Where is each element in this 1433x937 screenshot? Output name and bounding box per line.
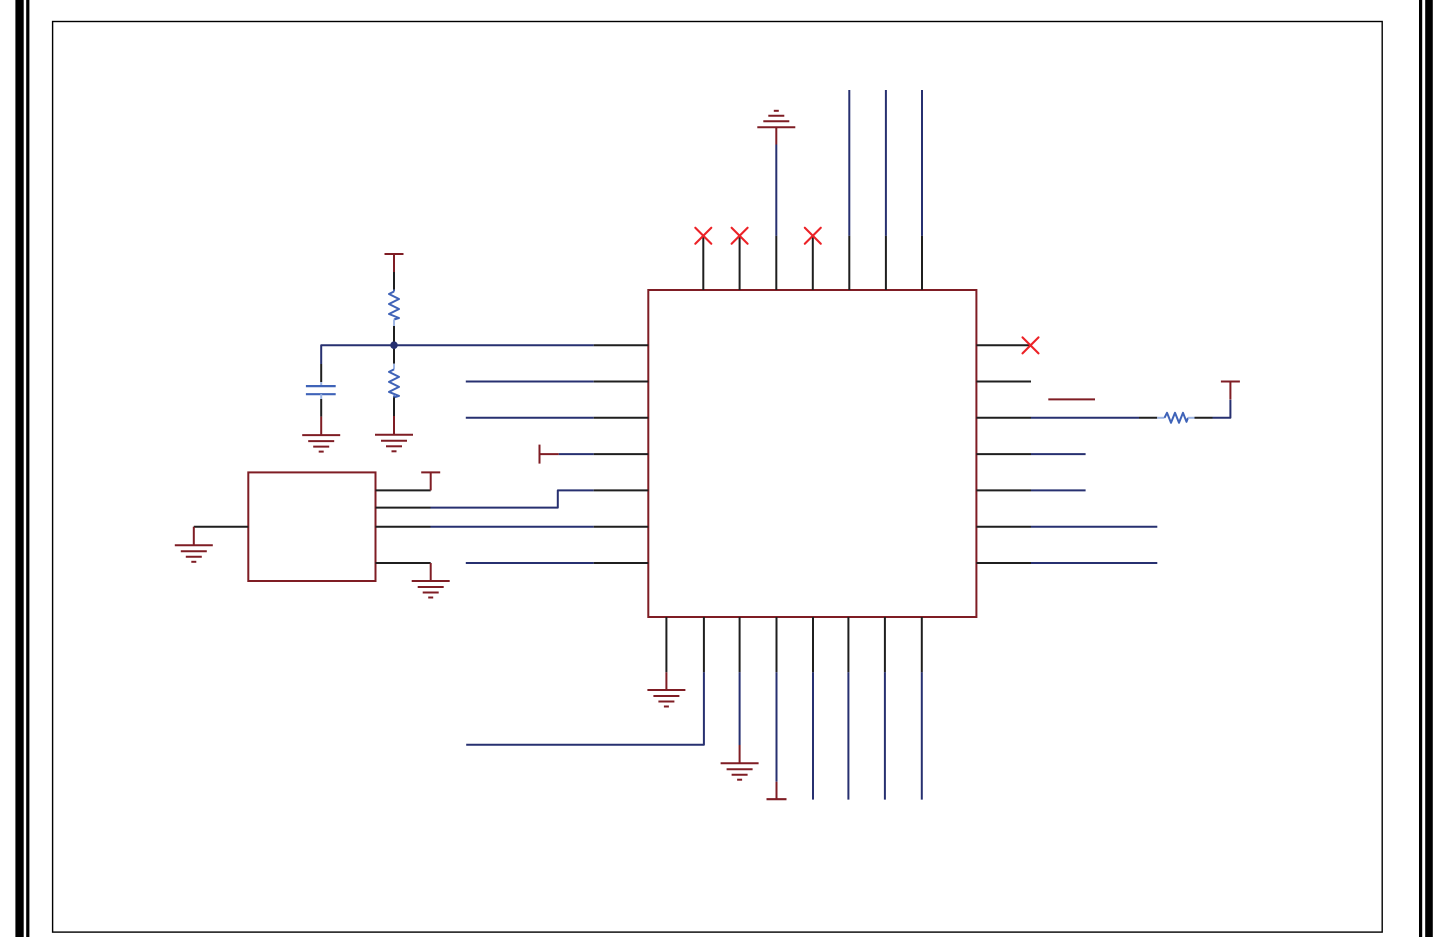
ground: [375, 416, 413, 451]
ground: [647, 672, 685, 706]
no-connect: [695, 228, 711, 244]
wire: [1213, 400, 1231, 418]
power flag PWR4: [767, 782, 787, 800]
no-connect: [1023, 337, 1039, 353]
wire: [885, 90, 887, 236]
wire: [466, 562, 594, 564]
wire: [321, 345, 594, 364]
wire: [775, 145, 777, 236]
wire: [466, 417, 594, 419]
label bar: [1048, 398, 1095, 400]
wire: [1031, 562, 1157, 564]
ground: [302, 417, 340, 452]
ground: [721, 745, 759, 780]
wire: [847, 672, 849, 799]
no-connect: [732, 228, 748, 244]
resistor R2: [389, 345, 399, 416]
wire: [921, 90, 923, 236]
wire: [848, 90, 850, 236]
wire: [1031, 526, 1157, 528]
wire: [739, 672, 741, 745]
wire: [466, 672, 704, 745]
power flag PWR5: [1221, 382, 1240, 400]
wire: [921, 672, 923, 799]
resistor R3: [1139, 413, 1213, 423]
junction: [390, 341, 398, 349]
resistor R1: [389, 272, 399, 345]
wire: [812, 672, 814, 799]
wire: [431, 526, 594, 528]
IC U1: [594, 236, 1031, 673]
wire: [431, 490, 594, 507]
wire: [466, 381, 594, 383]
no-connect: [805, 228, 821, 244]
wire: [1031, 489, 1086, 491]
ground: [412, 563, 450, 598]
ground: [175, 527, 213, 562]
wire: [1031, 417, 1139, 419]
power flag PWR2: [421, 472, 440, 490]
power flag PWR1: [385, 254, 404, 272]
power flag PWR3: [540, 445, 559, 464]
wire: [776, 672, 778, 781]
wire: [1031, 453, 1086, 455]
IC U2: [194, 472, 431, 581]
capacitor C1: [306, 364, 336, 417]
wire: [884, 672, 886, 799]
wire: [559, 453, 594, 455]
ground: [757, 111, 795, 145]
